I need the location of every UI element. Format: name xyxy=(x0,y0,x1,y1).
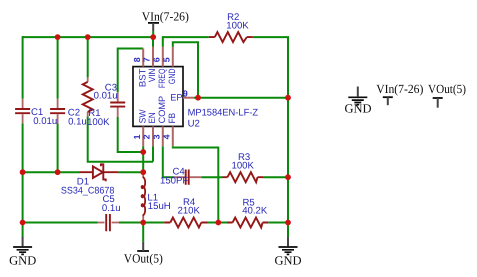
svg-text:U2: U2 xyxy=(188,119,200,130)
pin 9 EP lead xyxy=(183,97,194,99)
svg-text:VOut(5): VOut(5) xyxy=(428,82,466,96)
node VIn xyxy=(150,34,156,40)
svg-text:210K: 210K xyxy=(178,206,201,217)
junction node dots xyxy=(20,34,291,225)
svg-text:2: 2 xyxy=(142,134,152,139)
svg-text:GND: GND xyxy=(9,254,36,268)
node R3-GND column xyxy=(285,174,291,180)
wire diode cathode to SW node xyxy=(118,171,143,173)
svg-text:VIn(7-26): VIn(7-26) xyxy=(376,82,423,96)
svg-text:MP1584EN-LF-Z: MP1584EN-LF-Z xyxy=(188,107,259,118)
svg-text:8: 8 xyxy=(132,57,142,62)
svg-text:VOut(5): VOut(5) xyxy=(124,252,163,266)
svg-text:GND: GND xyxy=(274,254,301,268)
net flag VIn floating xyxy=(383,97,393,105)
node C2 top xyxy=(55,34,61,40)
svg-text:FB: FB xyxy=(167,113,177,124)
node GND rail left xyxy=(20,220,26,226)
op-amp U2 MP1584EN-LF-Z body xyxy=(133,67,183,127)
wire VIn label stub xyxy=(152,31,154,37)
ground left xyxy=(13,237,32,255)
svg-text:40.2K: 40.2K xyxy=(242,205,268,216)
wire VOut node to R4 xyxy=(143,222,164,224)
wire C5 right to VOut node xyxy=(119,222,143,224)
capacitor C1 xyxy=(15,99,30,124)
svg-text:15uH: 15uH xyxy=(148,201,171,212)
wire FB pin 4 over and down to divider node xyxy=(173,146,219,222)
net flag VOut floating xyxy=(433,98,443,108)
diode D1 xyxy=(80,164,119,181)
net flag VOut bottom xyxy=(137,242,149,251)
resistor R1 xyxy=(83,77,93,116)
wire R3 right to GND column xyxy=(263,176,288,178)
wire VIN pin 7 drop xyxy=(152,36,154,47)
svg-text:9: 9 xyxy=(183,88,188,98)
wire R4 to divider node xyxy=(208,222,219,224)
pin 7 VIN lead xyxy=(152,47,154,67)
svg-text:0.1u: 0.1u xyxy=(102,203,121,214)
node D1 anode C2 xyxy=(55,169,61,175)
wire divider node to R5 xyxy=(218,222,227,224)
wire C3 top to BST pin 8 xyxy=(118,49,144,93)
svg-text:1: 1 xyxy=(132,134,142,139)
wire C2 bottom to diode line xyxy=(57,123,59,172)
wire C4 right to R3 xyxy=(201,176,222,178)
wire EN pin riser xyxy=(152,146,154,162)
node EP xyxy=(195,95,201,101)
svg-text:0.1u: 0.1u xyxy=(68,117,87,128)
pin 5 GND lead xyxy=(172,47,174,67)
svg-text:EN: EN xyxy=(147,112,157,123)
node EP-GND column xyxy=(285,95,291,101)
net flag VIn top xyxy=(148,23,159,31)
wire R5 to GND column xyxy=(268,222,288,224)
wire R1 bottom to EN xyxy=(88,116,153,161)
wire SW pin 1 down to diode node xyxy=(142,146,144,172)
svg-text:GND: GND xyxy=(167,68,177,84)
node VOut L1 xyxy=(140,220,146,226)
wire C1 bottom to GND rail xyxy=(22,123,24,237)
wire C1 top branch xyxy=(22,36,24,99)
wire GND pin 5 over to EP column xyxy=(173,42,198,97)
node R5-GND column xyxy=(285,220,291,226)
resistor R3 xyxy=(223,172,264,182)
svg-text:EP: EP xyxy=(170,92,182,102)
wire GND rail to C5 xyxy=(23,222,98,224)
wire R1 top branch xyxy=(87,37,89,77)
wire C3 bottom to SW node xyxy=(118,117,144,152)
wire VOut label stub xyxy=(142,223,144,242)
wire FREQ pin 6 to R2 xyxy=(163,37,209,47)
svg-text:3: 3 xyxy=(152,134,162,139)
resistor R4 xyxy=(164,218,207,228)
ground floating right xyxy=(348,87,367,105)
pin 4 FB lead xyxy=(172,126,174,146)
svg-text:VIn(7-26): VIn(7-26) xyxy=(142,9,189,23)
svg-text:150PF: 150PF xyxy=(160,176,188,187)
ground right xyxy=(279,237,298,255)
svg-text:5: 5 xyxy=(162,57,172,62)
wire COMP pin 3 down to C4 xyxy=(163,146,174,177)
pin 2 EN lead xyxy=(152,126,154,146)
capacitor C2 xyxy=(50,99,65,124)
wire R2 right to GND column xyxy=(253,36,289,237)
svg-text:6: 6 xyxy=(152,57,162,62)
resistor R5 xyxy=(227,218,268,228)
svg-text:100K: 100K xyxy=(87,117,110,128)
node FB divider xyxy=(215,220,221,226)
svg-text:7: 7 xyxy=(142,57,152,62)
svg-text:100K: 100K xyxy=(226,21,249,32)
svg-text:100K: 100K xyxy=(232,161,255,172)
svg-text:0.01u: 0.01u xyxy=(33,116,57,127)
pin 8 BST lead xyxy=(142,49,144,67)
capacitor C4 xyxy=(174,170,201,185)
svg-text:VIN: VIN xyxy=(147,69,157,83)
resistor R2 xyxy=(209,32,253,42)
svg-text:0.01u: 0.01u xyxy=(94,91,118,102)
svg-text:FREQ: FREQ xyxy=(157,69,167,89)
wire VIN top rail xyxy=(23,36,154,38)
svg-text:4: 4 xyxy=(162,134,172,139)
svg-text:BST: BST xyxy=(137,68,147,87)
wire C2 top branch xyxy=(57,37,59,99)
pin 1 SW lead xyxy=(142,126,144,146)
node SW-D1 xyxy=(140,169,146,175)
wire EP to right GND column xyxy=(194,97,288,99)
pin 3 COMP lead xyxy=(162,126,164,146)
node R1 top xyxy=(85,34,91,40)
svg-text:COMP: COMP xyxy=(157,96,167,124)
node D1 anode C1 xyxy=(20,169,26,175)
svg-text:GND: GND xyxy=(344,102,371,116)
capacitor C3 xyxy=(110,92,125,117)
node SW-C3 xyxy=(140,149,146,155)
inductor L1 xyxy=(142,172,146,222)
pin 6 FREQ lead xyxy=(162,47,164,67)
capacitor C5 xyxy=(98,214,120,231)
wire diode line left section xyxy=(23,171,80,173)
svg-text:SW: SW xyxy=(137,109,147,123)
